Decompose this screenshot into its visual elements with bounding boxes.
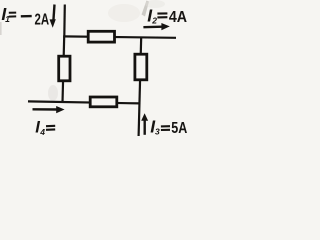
resistor R1 (top horizontal)	[88, 31, 114, 42]
resistor R3 (right vertical)	[135, 54, 147, 80]
svg-text:2A: 2A	[35, 12, 50, 29]
label I3 = 5A	[150, 117, 187, 137]
arrow I1 (downward, current into top-left node)	[50, 5, 56, 28]
smudge below left resistor	[48, 85, 58, 101]
resistor R2 (left vertical)	[59, 56, 70, 81]
arrow I2 (rightward, top-right)	[143, 23, 169, 30]
background paper	[0, 0, 193, 143]
smudge left edge	[0, 22, 2, 35]
arrow I4 (rightward, bottom-left)	[33, 106, 65, 113]
label I1 = -2A	[1, 4, 49, 29]
svg-text:5A: 5A	[171, 120, 187, 137]
wire: bottom horizontal	[28, 101, 140, 103]
faint scan cloud top far-left of I2	[145, 0, 165, 8]
label I4 =	[35, 118, 55, 136]
resistor R4 (bottom horizontal)	[90, 97, 117, 107]
smudge near I2 label	[142, 1, 150, 17]
wire: left vertical branch	[63, 37, 65, 103]
wire: left vertical lead above top node	[63, 5, 66, 38]
svg-text:4: 4	[39, 127, 45, 137]
arrow I3 (upward, bottom-right)	[141, 113, 148, 135]
svg-text:4A: 4A	[169, 9, 188, 26]
svg-text:2: 2	[151, 15, 157, 25]
svg-text:1: 1	[5, 14, 10, 24]
label I2 = 4A	[147, 5, 187, 26]
wire: right vertical branch	[139, 37, 142, 136]
wire: top horizontal	[63, 36, 176, 37]
svg-text:3: 3	[155, 127, 160, 137]
faint scan cloud top middle	[108, 4, 140, 22]
